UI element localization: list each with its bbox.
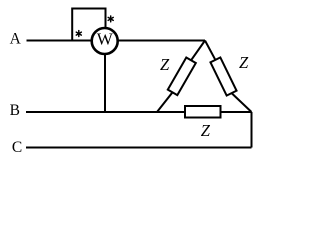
- svg-text:A: A: [10, 30, 22, 47]
- svg-text:W: W: [97, 30, 114, 49]
- svg-text:Z: Z: [201, 121, 211, 140]
- svg-text:C: C: [12, 139, 22, 156]
- svg-text:B: B: [10, 102, 20, 119]
- svg-text:Z: Z: [239, 53, 249, 72]
- svg-text:Z: Z: [160, 55, 170, 74]
